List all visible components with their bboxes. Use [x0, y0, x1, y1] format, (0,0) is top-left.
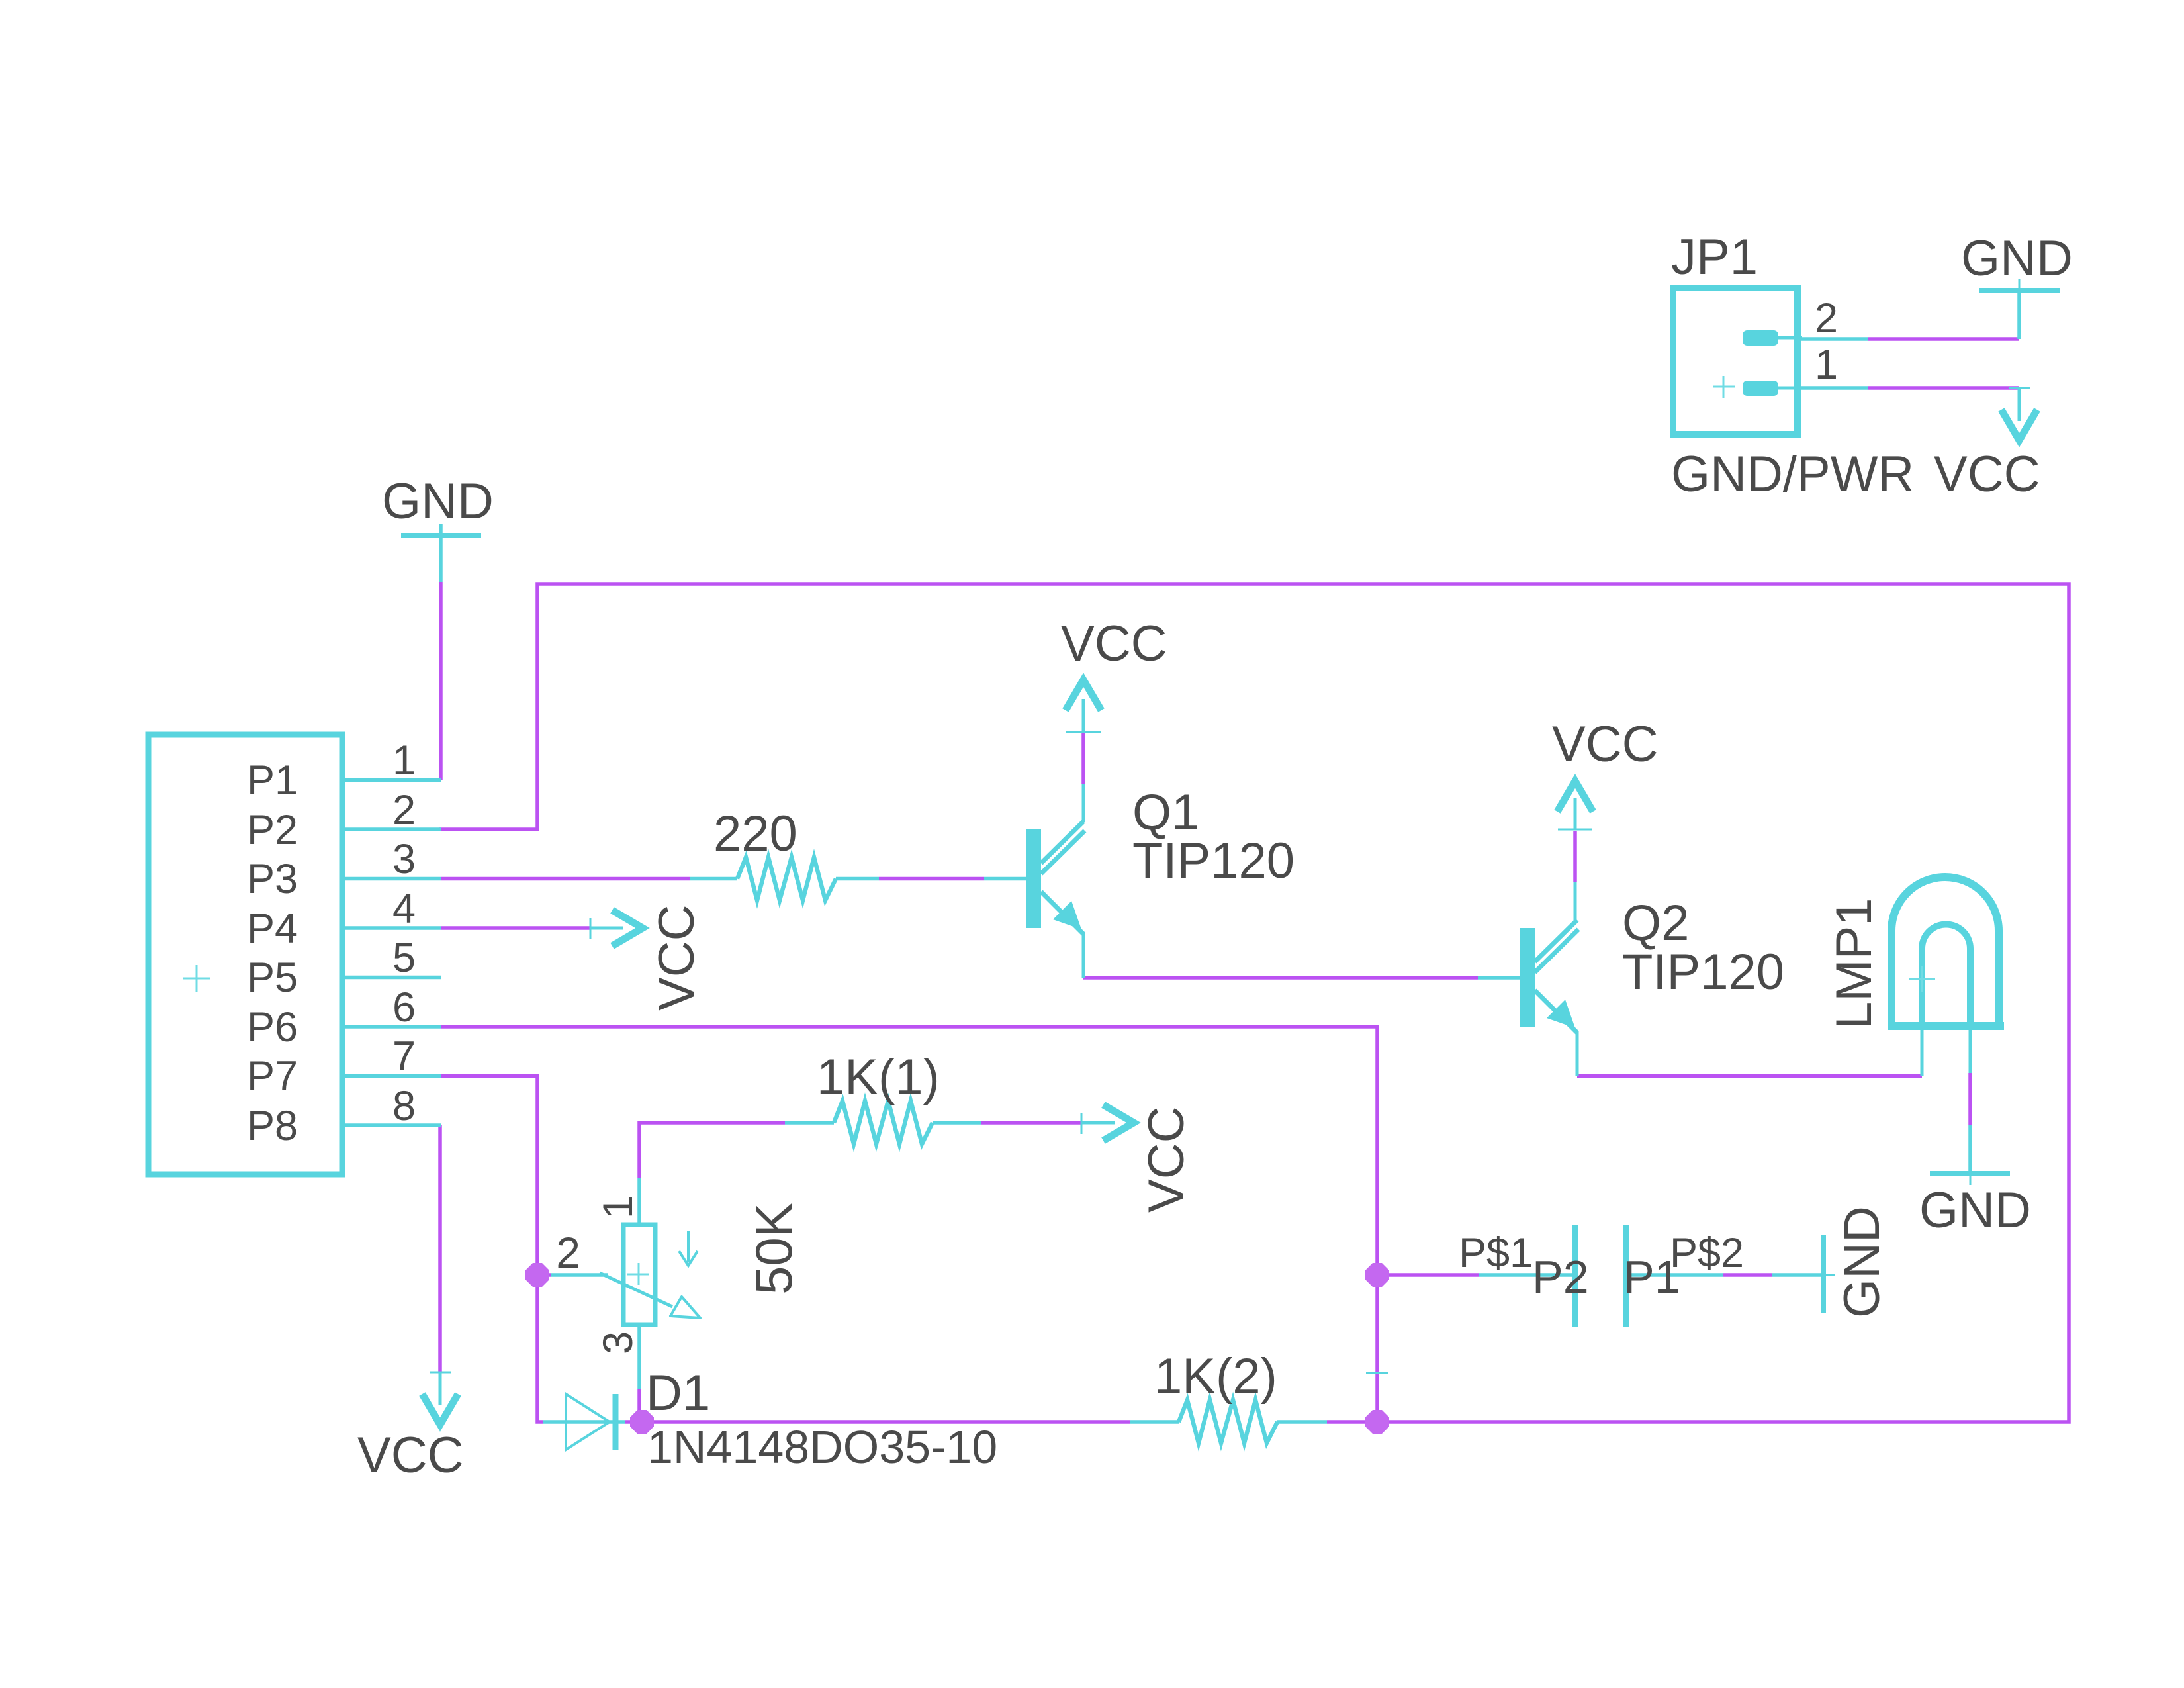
VCC arrow above Q1 — [1066, 680, 1101, 732]
svg-text:VCC: VCC — [1061, 616, 1167, 672]
svg-text:2: 2 — [556, 1228, 580, 1277]
svg-text:1N4148DO35-10: 1N4148DO35-10 — [647, 1421, 997, 1473]
svg-text:P$1: P$1 — [1459, 1230, 1533, 1276]
svg-text:Q2: Q2 — [1622, 895, 1689, 951]
wire Q2 emitter to LMP1 — [1577, 1074, 1922, 1078]
svg-text:1K(2): 1K(2) — [1154, 1348, 1277, 1405]
svg-text:6: 6 — [392, 984, 416, 1031]
VCC arrow below JP1 pin1 — [2001, 388, 2037, 440]
wire P3 to 220 — [441, 877, 690, 881]
svg-text:2: 2 — [392, 787, 416, 833]
pin stub 4 — [345, 926, 441, 930]
resistor 1K(1) — [834, 1101, 933, 1144]
resistor 220 — [737, 857, 836, 900]
pin stub 5 — [345, 976, 441, 980]
svg-text:P3: P3 — [247, 856, 298, 902]
svg-text:VCC: VCC — [1138, 1107, 1195, 1213]
JP1 pin1 stub — [1800, 386, 1868, 390]
lamp LMP1 — [1888, 877, 2004, 1076]
wire Q2 collector to VCC — [1573, 831, 1577, 882]
wire pad P1 to GND — [1723, 1273, 1772, 1277]
GND LMP1 stem — [1968, 1125, 1972, 1174]
svg-text:1K(1): 1K(1) — [817, 1049, 940, 1105]
GND top-left stem — [439, 524, 443, 582]
pin stub 7 — [345, 1074, 441, 1078]
svg-text:GND: GND — [1834, 1206, 1890, 1318]
D1 lead — [543, 1420, 625, 1424]
connector pin names P1-P8 — [247, 757, 298, 1149]
svg-text:P6: P6 — [247, 1004, 298, 1051]
svg-text:LMP1: LMP1 — [1826, 898, 1882, 1029]
svg-text:1: 1 — [595, 1196, 641, 1219]
svg-text:GND: GND — [1961, 230, 2073, 287]
svg-text:P7: P7 — [247, 1053, 298, 1100]
pot origin cross — [627, 1263, 649, 1285]
svg-text:P1: P1 — [247, 757, 298, 804]
wire pot pin1 up to 1K(1) — [639, 1123, 785, 1178]
JUNCTION DOTS — [525, 1263, 1389, 1434]
wire bottom junction to 1K(2) — [651, 1420, 1130, 1424]
VCC arrow above Q2 — [1557, 781, 1593, 829]
wire Q1 collector to VCC — [1081, 732, 1085, 784]
svg-text:3: 3 — [392, 836, 416, 882]
svg-text:50K: 50K — [745, 1203, 803, 1295]
svg-text:P4: P4 — [247, 906, 298, 952]
wire GND to pin1 — [439, 582, 443, 780]
resistor 1K(2) — [1179, 1400, 1277, 1443]
wire P4 to VCC arrow — [441, 926, 590, 930]
pad P1 stub — [1629, 1273, 1723, 1277]
pin stub 2 — [345, 827, 441, 831]
wire junction to pad P2 — [1379, 1273, 1479, 1277]
svg-text:P2: P2 — [247, 807, 298, 853]
wire JP1 pin2 to GND — [1868, 337, 2019, 341]
JP1 origin cross — [1713, 376, 1735, 398]
wire 1K(2) to right junction — [1327, 1420, 1376, 1424]
svg-text:2: 2 — [1815, 295, 1838, 342]
transistor Q1 TIP120 — [1026, 784, 1085, 978]
pad P2 stub — [1479, 1273, 1572, 1277]
wire LMP1 to GND — [1968, 1073, 1972, 1125]
wire P2 net big loop — [439, 584, 2069, 1422]
svg-text:TIP120: TIP120 — [1622, 944, 1784, 1000]
pot pin1 stub — [637, 1178, 641, 1225]
pin stub 6 — [345, 1025, 441, 1029]
wire P7 down to D1 — [441, 1076, 543, 1423]
Q2 base stub — [1478, 976, 1520, 980]
wire D1 to junction — [625, 1420, 633, 1424]
svg-text:220: 220 — [713, 806, 797, 862]
junction dot P6/bottom row — [1365, 1410, 1389, 1434]
svg-text:VCC: VCC — [357, 1427, 463, 1483]
junction dot D1 cathode — [630, 1410, 654, 1434]
lamp origin cross — [1909, 966, 1935, 992]
resistor 1K(1) leads — [785, 1121, 834, 1125]
wire 1K(1) to VCC arrow — [981, 1121, 1081, 1125]
pin stub 1 — [345, 778, 441, 782]
transistor Q2 TIP120 — [1520, 882, 1578, 1076]
pot pin3 stub — [637, 1325, 641, 1389]
svg-text:VCC: VCC — [649, 905, 705, 1011]
connector pin numbers 1-8 — [392, 737, 416, 1129]
JP1 pin2 stub — [1800, 337, 1868, 341]
GND symbol top-left — [401, 524, 481, 547]
GND symbol rotated near P$2 — [1812, 1235, 1835, 1313]
junction dot pot pin2 — [525, 1263, 549, 1287]
GND JP1 stem — [2017, 291, 2021, 339]
svg-text:JP1: JP1 — [1671, 229, 1758, 285]
svg-text:VCC: VCC — [1552, 716, 1658, 773]
wire 220 to Q1 base — [879, 877, 984, 881]
svg-text:5: 5 — [392, 935, 416, 981]
svg-text:P8: P8 — [247, 1103, 298, 1149]
svg-text:1: 1 — [392, 737, 416, 784]
JP1 connector box — [1673, 288, 1802, 434]
potentiometer 50K — [600, 1225, 700, 1325]
svg-text:7: 7 — [392, 1033, 416, 1080]
wire P6 down to bottom row — [441, 1027, 1377, 1422]
wire junction to pot pin2 — [537, 1273, 551, 1277]
VCC arrow right of P4 — [590, 910, 643, 946]
junction dot P6/pad row — [1365, 1263, 1389, 1287]
GND symbol above JP1 wire — [1979, 279, 2060, 302]
svg-text:D1: D1 — [646, 1365, 710, 1421]
diode D1 — [566, 1394, 615, 1450]
wire P8 down to VCC — [438, 1125, 442, 1372]
svg-text:TIP120: TIP120 — [1132, 833, 1295, 889]
GND symbol below LMP1 — [1930, 1162, 2010, 1185]
pad P2 bar — [1572, 1225, 1578, 1327]
pin stub 8 — [345, 1123, 441, 1127]
wire JP1 pin1 to VCC — [1868, 386, 2019, 390]
cross tick on P6 vertical — [1366, 1372, 1388, 1374]
svg-text:P5: P5 — [247, 955, 298, 1001]
svg-text:8: 8 — [392, 1083, 416, 1129]
pin stub 3 — [345, 877, 441, 881]
svg-text:GND: GND — [382, 473, 494, 530]
Q1 base stub — [984, 877, 1026, 881]
pad P1 bar — [1623, 1225, 1629, 1327]
VCC arrow below P8 — [422, 1372, 458, 1425]
svg-text:GND/PWR: GND/PWR — [1671, 446, 1914, 502]
svg-text:VCC: VCC — [1934, 446, 2040, 502]
CYAN PIN STUBS — [345, 291, 2019, 1422]
connector origin cross — [183, 965, 210, 992]
VCC arrow right of 1K(1) — [1081, 1105, 1134, 1141]
wire pot pin3 to bottom junction — [637, 1389, 641, 1412]
connector header box P1-P8 — [148, 735, 342, 1174]
pot pin2 stub — [551, 1273, 608, 1277]
resistor 220 leads — [690, 877, 737, 881]
svg-text:4: 4 — [392, 886, 416, 932]
svg-text:1: 1 — [1815, 342, 1838, 388]
resistor 1K(2) leads — [1130, 1420, 1179, 1424]
GND rotated stem — [1772, 1273, 1821, 1277]
svg-text:P$2: P$2 — [1670, 1230, 1744, 1276]
wire Q1 emitter to Q2 base — [1083, 976, 1478, 980]
svg-text:P2: P2 — [1532, 1251, 1589, 1303]
svg-text:GND: GND — [1919, 1182, 2031, 1239]
svg-text:3: 3 — [595, 1331, 641, 1354]
